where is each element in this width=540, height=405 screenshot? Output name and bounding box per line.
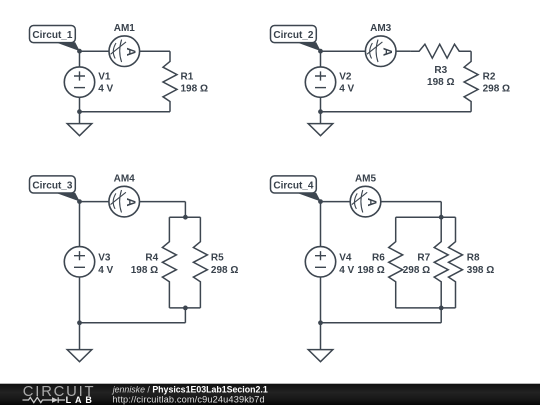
svg-text:V1: V1 — [98, 72, 111, 83]
svg-text:R1: R1 — [181, 72, 194, 83]
ground circuit 1 — [67, 124, 92, 136]
flag Circut_4 — [271, 176, 321, 202]
label R2 298 ohm — [483, 72, 510, 95]
wire bottom rail — [80, 322, 186, 324]
flag Circut_3 — [30, 176, 80, 202]
resistor R4 — [162, 232, 176, 293]
label R6 198 ohm — [357, 253, 385, 276]
logo wire with resistor zigzag — [23, 397, 53, 402]
wire corner down to top bar — [440, 202, 442, 218]
svg-text:198 Ω: 198 Ω — [427, 77, 454, 88]
svg-text:R8: R8 — [467, 253, 480, 264]
svg-text:298 Ω: 298 Ω — [483, 84, 510, 95]
wire R6 bottom lead — [395, 292, 397, 308]
svg-text:Circut_2: Circut_2 — [273, 30, 313, 41]
wire R4 bottom lead — [168, 292, 170, 308]
svg-text:R4: R4 — [145, 253, 158, 264]
wire V4 bottom to node — [320, 277, 322, 323]
svg-text:Circut_3: Circut_3 — [32, 180, 72, 191]
label R4 198 ohm — [131, 253, 159, 276]
svg-text:Circut_1: Circut_1 — [32, 30, 72, 41]
svg-text:4 V: 4 V — [98, 265, 113, 276]
wire node to V3 top — [79, 202, 81, 247]
voltage source V1 — [64, 67, 94, 97]
svg-text:AM1: AM1 — [114, 23, 136, 34]
svg-text:V3: V3 — [98, 253, 111, 264]
svg-text:R3: R3 — [434, 65, 447, 76]
ammeter AM3 — [365, 36, 396, 67]
node I (top bar, circuit 4) — [439, 215, 444, 220]
flag Circut_1 — [30, 26, 80, 52]
svg-text:LAB: LAB — [66, 395, 96, 405]
node D (bottom, circuit 2) — [318, 109, 323, 114]
resistor R5 — [193, 232, 207, 293]
voltage source V3 — [64, 247, 94, 277]
wire node to ground — [79, 323, 81, 350]
node K (top, circuit 4) — [318, 199, 323, 204]
svg-text:V4: V4 — [339, 253, 352, 264]
svg-text:AM4: AM4 — [114, 173, 136, 184]
svg-text:R2: R2 — [483, 72, 496, 83]
node B (bottom, circuit 1) — [77, 109, 82, 114]
ammeter AM4 — [109, 186, 140, 217]
wire R7 bottom lead — [440, 292, 442, 308]
node J (bottom bar, circuit 4) — [439, 306, 444, 311]
wire bottom R2 to node — [321, 111, 472, 113]
wire bottom R1 to node — [80, 111, 171, 113]
svg-text:198 Ω: 198 Ω — [131, 265, 158, 276]
wire node to AM3 — [321, 50, 366, 52]
wire top bar parallel — [396, 216, 456, 218]
wire R8 top lead — [455, 217, 457, 231]
node C (top, circuit 2) — [318, 49, 323, 54]
wire bottom bar to rail — [184, 308, 186, 323]
wire R5 bottom lead — [199, 292, 201, 308]
voltage source V2 — [305, 67, 335, 97]
wire node to AM5 — [321, 201, 351, 203]
svg-text:398 Ω: 398 Ω — [467, 265, 494, 276]
svg-text:198 Ω: 198 Ω — [181, 84, 208, 95]
svg-text:R7: R7 — [417, 253, 430, 264]
svg-text:R5: R5 — [211, 253, 224, 264]
wire AM5 to corner — [381, 201, 441, 203]
wire node to AM4 — [80, 201, 110, 203]
wire bottom rail — [321, 322, 442, 324]
svg-text:198 Ω: 198 Ω — [357, 265, 384, 276]
voltage source V4 — [305, 247, 335, 277]
resistor R8 — [449, 232, 463, 293]
wire R4 top lead — [168, 217, 170, 231]
logo diode — [52, 397, 58, 403]
svg-text:4 V: 4 V — [98, 84, 113, 95]
wire node to V4 top — [320, 202, 322, 247]
wire bottom bar parallel — [396, 307, 456, 309]
resistor R6 — [389, 232, 403, 293]
node F (bottom bar, circuit 3) — [183, 306, 188, 311]
node G (top, circuit 3) — [77, 199, 82, 204]
wire R8 bottom lead — [455, 292, 457, 308]
label R5 298 ohm — [211, 253, 238, 276]
svg-text:4 V: 4 V — [339, 265, 354, 276]
resistor R1 — [163, 51, 177, 111]
flag Circut_2 — [271, 26, 321, 52]
svg-text:298 Ω: 298 Ω — [211, 265, 238, 276]
wire AM1 to R1 — [140, 50, 170, 52]
svg-text:http://circuitlab.com/c9u24u43: http://circuitlab.com/c9u24u439kb7d — [112, 394, 264, 404]
label R8 398 ohm — [467, 253, 494, 276]
wire top bar parallel — [169, 216, 200, 218]
svg-text:jenniske / Physics1E03Lab1Seci: jenniske / Physics1E03Lab1Secion2.1 — [112, 385, 268, 395]
node A (top, circuit 1) — [77, 49, 82, 54]
svg-text:298 Ω: 298 Ω — [403, 265, 430, 276]
ammeter AM5 — [350, 186, 381, 217]
svg-text:Circut_4: Circut_4 — [273, 180, 313, 191]
wire node to V1 top — [79, 51, 81, 67]
ammeter AM1 — [109, 36, 140, 67]
node E (top bar, circuit 3) — [183, 215, 188, 220]
label V3 4V — [98, 253, 113, 276]
resistor R7 — [434, 232, 448, 293]
wire node to AM1 — [80, 50, 110, 52]
svg-text:AM5: AM5 — [355, 173, 377, 184]
label R1 198 ohm — [181, 72, 208, 95]
wire AM4 to corner — [140, 201, 186, 203]
svg-text:AM3: AM3 — [370, 23, 392, 34]
resistor R2 — [464, 51, 478, 111]
label V2 4V — [339, 72, 354, 95]
label R7 298 ohm — [403, 253, 431, 276]
wire corner down to top bar — [184, 202, 186, 218]
node L (bottom rail, circuit 4) — [318, 320, 323, 325]
ground circuit 2 — [308, 124, 333, 136]
wire R7 top lead — [440, 217, 442, 231]
wire node to V2 top — [320, 51, 322, 67]
ground circuit 3 — [67, 350, 92, 362]
wire bottom bar parallel — [169, 307, 200, 309]
wire V1 bottom to node — [79, 97, 81, 111]
wire R6 top lead — [395, 217, 397, 231]
wire node to ground — [320, 323, 322, 350]
wire node to ground — [79, 112, 81, 124]
wire bottom bar to rail — [440, 308, 442, 323]
wire AM3 to R3 — [396, 50, 411, 52]
svg-text:V2: V2 — [339, 72, 352, 83]
ground circuit 4 — [308, 350, 333, 362]
node H (bottom rail, circuit 3) — [77, 320, 82, 325]
svg-text:R6: R6 — [372, 253, 385, 264]
wire node to ground — [320, 112, 322, 124]
svg-text:4 V: 4 V — [339, 84, 354, 95]
wire R5 top lead — [199, 217, 201, 231]
label V4 4V — [339, 253, 354, 276]
label V1 4V — [98, 72, 113, 95]
wire V2 bottom to node — [320, 97, 322, 111]
resistor R3 (horizontal) — [411, 44, 472, 58]
wire V3 bottom to node — [79, 277, 81, 323]
label R3 198 ohm — [427, 65, 454, 88]
